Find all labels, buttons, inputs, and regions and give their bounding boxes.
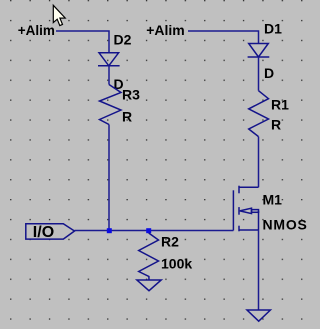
gate bar xyxy=(232,190,234,230)
junction node (R2 tap) xyxy=(146,228,151,233)
svg-text:R2: R2 xyxy=(161,234,179,250)
junction node (left branch) xyxy=(107,228,112,233)
svg-text:R3: R3 xyxy=(122,87,140,103)
channel middle segment xyxy=(238,207,240,215)
drain stub xyxy=(239,186,259,188)
wire xyxy=(108,125,110,231)
diode D2 xyxy=(98,53,120,66)
source arrow xyxy=(240,208,252,213)
svg-text:D: D xyxy=(264,65,274,81)
wire xyxy=(188,31,259,44)
svg-text:+Alim: +Alim xyxy=(18,23,55,38)
wire source to ground xyxy=(258,230,260,310)
wire xyxy=(258,57,260,91)
wire I/O rail xyxy=(75,230,234,232)
svg-text:D1: D1 xyxy=(264,21,282,37)
svg-text:R1: R1 xyxy=(271,97,289,113)
svg-text:D2: D2 xyxy=(114,32,132,48)
svg-text:M1: M1 xyxy=(263,192,283,208)
svg-text:R: R xyxy=(122,109,132,125)
transistor M1 xyxy=(233,186,258,232)
svg-text:100k: 100k xyxy=(161,256,192,272)
resistor R3 xyxy=(100,85,122,125)
resistor R2 xyxy=(139,233,159,280)
svg-text:I/O: I/O xyxy=(33,224,54,241)
ground (right) xyxy=(247,310,270,321)
wire xyxy=(108,66,110,85)
resistor R1 xyxy=(249,91,269,137)
diode D1 xyxy=(248,44,270,58)
source stub xyxy=(239,229,259,231)
svg-text:R: R xyxy=(271,117,281,133)
mouse cursor xyxy=(53,5,65,25)
svg-text:+Alim: +Alim xyxy=(146,22,185,38)
port I/O xyxy=(26,224,75,239)
source corner vertical xyxy=(258,211,260,230)
wire drain xyxy=(258,137,260,188)
ground (under R2) xyxy=(137,280,161,291)
channel bottom segment xyxy=(238,226,240,232)
wire xyxy=(56,31,109,53)
channel top segment xyxy=(238,186,240,194)
svg-text:NMOS: NMOS xyxy=(263,217,308,233)
